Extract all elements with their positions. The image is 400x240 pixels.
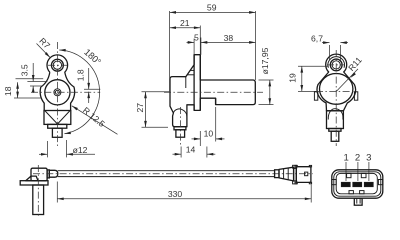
svg-text:18: 18 — [3, 86, 13, 96]
dimension 38 — [201, 33, 256, 44]
right view big circle — [320, 74, 353, 105]
svg-text:10: 10 — [204, 128, 214, 138]
dimension 14 — [173, 144, 216, 157]
cable — [58, 171, 275, 177]
dimension diameter 17,95 — [259, 47, 274, 104]
left view big circle R12.5 — [45, 80, 70, 105]
middle view horizontal centerline — [164, 91, 263, 93]
middle view boss inner vertical edge — [185, 77, 187, 88]
cable plug collar — [293, 165, 297, 184]
dimension 330 — [57, 182, 311, 203]
dimension R11 leader — [336, 55, 364, 92]
middle view rib line lower — [187, 74, 194, 76]
cable view nozzle bullet — [49, 170, 58, 177]
svg-text:1.8: 1.8 — [75, 69, 85, 81]
svg-text:14: 14 — [186, 144, 196, 154]
dimension 5 — [187, 33, 201, 55]
sensor body right view outline — [317, 54, 356, 111]
svg-text:5: 5 — [194, 33, 199, 43]
dimension 27 — [135, 92, 169, 128]
svg-text:59: 59 — [207, 2, 217, 12]
right view mounting hole outer ring — [330, 59, 342, 71]
middle view stub vertical centerline — [180, 107, 182, 145]
left view mounting hole inner ring — [53, 61, 61, 69]
right view dome arch — [328, 109, 343, 120]
left view horizontal centerline — [31, 91, 100, 93]
connector face bottom tab — [354, 198, 362, 205]
left view step below block — [48, 124, 67, 128]
middle view rib line upper — [190, 69, 194, 71]
middle view dome arch — [173, 109, 187, 116]
svg-text:38: 38 — [224, 33, 234, 43]
svg-text:ø12: ø12 — [73, 145, 88, 155]
connector face inner outline — [334, 172, 381, 196]
sensor body middle view outline — [170, 55, 255, 127]
connector face pin number labels 1 2 3 — [344, 152, 372, 163]
dimension 21 — [170, 18, 201, 55]
dimension R 12.5 leader — [71, 105, 117, 135]
svg-text:27: 27 — [135, 103, 145, 113]
svg-text:1: 1 — [344, 152, 349, 163]
svg-text:2: 2 — [355, 152, 360, 163]
left view hole horizontal centerline — [48, 64, 67, 66]
right view stub step — [329, 129, 341, 132]
connector face left notch — [332, 180, 336, 185]
left view mounting hole outer ring — [51, 59, 63, 71]
dimension 19 — [288, 66, 328, 91]
dimension R7 leader — [37, 36, 53, 59]
middle view flange left face — [193, 55, 195, 111]
connector face pin leader lines — [346, 162, 369, 181]
connector face keying bump right — [361, 173, 366, 177]
connector face pins — [341, 182, 373, 186]
dimension diameter 12 — [39, 140, 95, 157]
left view center hole inner ring — [55, 90, 59, 94]
cable view flange plate with tab — [20, 176, 48, 185]
dimension 59 — [170, 2, 256, 91]
left view connector stub — [52, 128, 62, 137]
dimension arc 180 degrees — [59, 47, 103, 135]
cable centerline — [33, 173, 313, 175]
cable plug window — [305, 172, 308, 176]
connector face outer outline — [332, 170, 383, 198]
cable view grommet block — [47, 170, 49, 178]
sensor body left view outline — [40, 55, 74, 111]
svg-text:3: 3 — [366, 152, 371, 163]
middle view stub step — [174, 127, 186, 130]
svg-text:19: 19 — [288, 73, 298, 83]
svg-text:ø17,95: ø17,95 — [260, 47, 270, 74]
cable view barrel centerline — [37, 165, 39, 217]
right view left side tab — [314, 92, 317, 100]
middle view connector stub — [176, 130, 185, 137]
connector face bottom keying bump right — [360, 191, 364, 194]
dimension 18 — [3, 82, 41, 98]
middle view notch vertical edge — [215, 98, 217, 104]
dimension 10 — [192, 107, 225, 146]
cable strain relief cone — [275, 167, 294, 181]
left view center hole outer ring — [54, 89, 61, 96]
connector face bottom keying bump left — [349, 191, 353, 194]
svg-text:21: 21 — [180, 18, 190, 28]
left view lower block with V notch — [44, 111, 71, 125]
right view vertical centerline — [335, 50, 337, 146]
connector face socket wall — [336, 173, 377, 193]
right view horizontal centerline — [316, 91, 357, 93]
left view vertical centerline — [56, 42, 58, 148]
right view connector stub — [331, 131, 339, 141]
right view right side tab — [354, 92, 357, 100]
middle view flange right face — [199, 55, 201, 111]
connector face keying bump left — [347, 173, 351, 177]
right view lobe inner arc — [328, 57, 345, 68]
svg-text:6,7: 6,7 — [311, 33, 323, 43]
dimension 6,7 — [311, 33, 348, 60]
cable plug body — [295, 165, 312, 183]
dimension 1.8 — [75, 68, 100, 103]
right view mounting hole inner ring — [332, 61, 340, 69]
cable view probe barrel — [33, 185, 44, 215]
svg-text:3.5: 3.5 — [20, 64, 30, 76]
cable view sensor body block — [31, 168, 47, 181]
dimension 3.5 — [16, 63, 48, 93]
connector face right notch — [378, 180, 382, 185]
right view lower box — [327, 111, 344, 129]
right view hole horizontal centerline — [327, 64, 345, 66]
svg-text:330: 330 — [168, 189, 183, 199]
